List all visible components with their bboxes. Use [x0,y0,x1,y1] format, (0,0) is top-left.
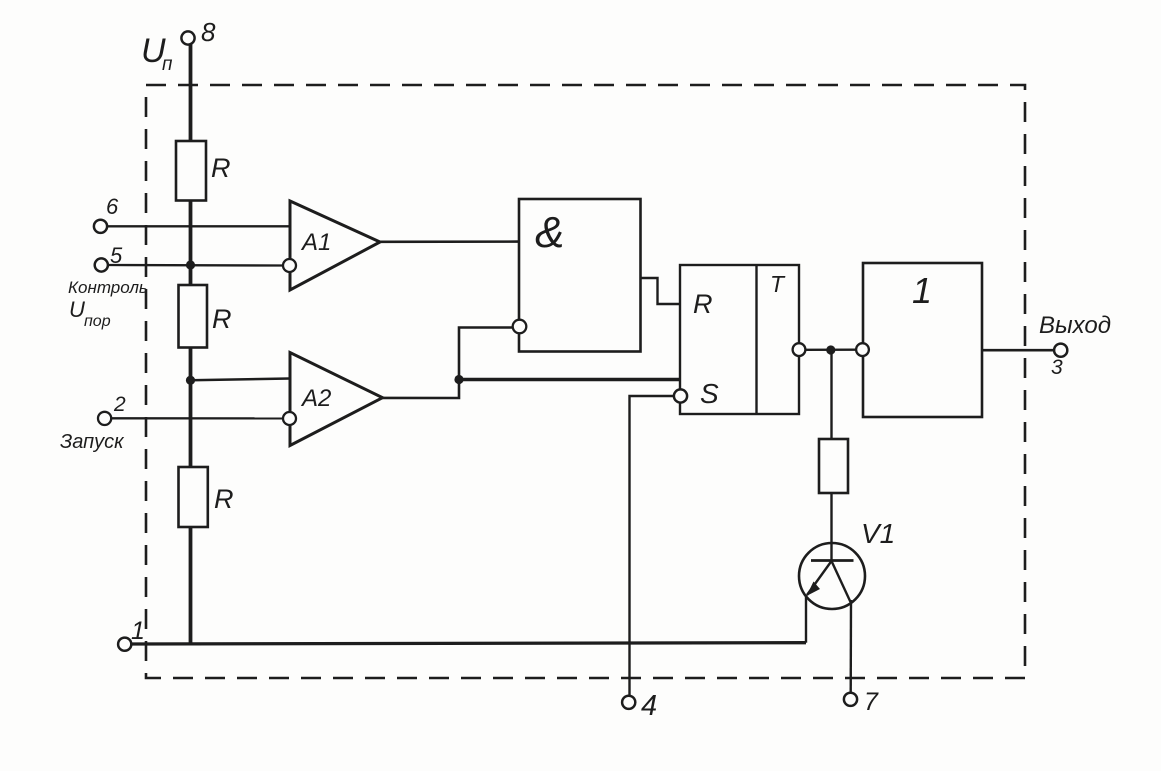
wire: A1 output to AND gate [379,240,519,243]
wire: pin 4 up to flip-flop S inverting input [630,396,675,696]
svg-text:S: S [700,378,719,409]
svg-text:&: & [535,208,564,257]
inverting bubble A1 [283,259,296,272]
svg-text:пор: пор [84,313,111,330]
svg-text:A2: A2 [300,385,331,412]
svg-text:6: 6 [106,194,119,219]
pin 2 terminal [98,412,111,425]
inverting bubble S input [674,389,687,402]
transistor V1 base bar [811,559,854,562]
wire: V1 collector down to pin 7 [850,600,853,693]
junction dot bus/A2 input [186,376,195,385]
inverting bubble A2 [283,412,296,425]
logic 1 box [863,263,982,417]
wire: V1 emitter down to ground rail [805,595,807,643]
svg-text:п: п [162,54,173,75]
transistor V1 body [799,543,865,609]
flip-flop T box [680,265,799,414]
svg-text:1: 1 [912,270,932,311]
inverting bubble logic box input [856,343,869,356]
resistor R upper divider [176,141,206,201]
resistor R lower divider [179,467,208,527]
svg-text:2: 2 [113,393,126,416]
resistor R middle divider [179,285,208,348]
wire: Vcc bus from pin 8 down to ground rail [189,44,193,644]
inverting bubble flip-flop output [793,343,806,356]
wire: divider tap to A2 noninverting input [191,379,291,381]
svg-text:V1: V1 [861,518,895,549]
svg-text:5: 5 [110,243,123,268]
pin 4 terminal [622,696,635,709]
svg-text:U: U [69,297,85,322]
wire: pin 2 to A2 inverting input [112,417,284,419]
svg-text:3: 3 [1051,356,1063,379]
inverting bubble AND input [513,320,527,334]
wire: pin 6 to A1 noninverting input [107,225,290,227]
pin 7 terminal [844,693,857,706]
pin 3 terminal [1054,344,1067,357]
svg-text:4: 4 [641,690,657,722]
comparator A1 [290,201,380,290]
dashed IC boundary [146,85,1025,678]
junction dot flip-flop output node [826,345,835,354]
wire: pin 5 to A1 inverting input [108,264,284,267]
wire: ground rail from pin 1 to V1 emitter [131,643,806,644]
pin 5 terminal [95,258,108,271]
pin 1 terminal [118,638,131,651]
transistor V1 collector leg [832,561,851,602]
AND gate box [519,199,641,352]
svg-text:R: R [214,484,234,514]
wire: flip-flop output to logic 1 box input [806,349,857,351]
svg-text:R: R [212,304,232,334]
pin 6 terminal [94,220,107,233]
svg-text:A1: A1 [300,229,331,256]
wire: AND gate output to flip-flop R input [641,278,681,304]
svg-text:1: 1 [131,617,145,645]
svg-text:Контроль: Контроль [68,278,148,297]
transistor V1 emitter leg with arrow [807,561,832,595]
junction dot A2 output node [454,375,463,384]
svg-text:R: R [211,153,231,183]
resistor discharge (above V1) [819,439,848,493]
svg-text:Выход: Выход [1039,312,1111,339]
wire: A2 output up to AND gate inverting input [382,328,514,399]
svg-text:R: R [693,289,713,319]
junction dot bus/pin5 [186,260,195,269]
svg-text:8: 8 [201,17,216,47]
wire: comparator node to flip-flop S side [459,378,680,381]
flip-flop divider [755,265,757,414]
comparator A2 [290,353,383,446]
svg-text:Запуск: Запуск [60,431,125,453]
pin 8 terminal [181,31,194,44]
svg-text:7: 7 [864,688,879,716]
svg-text:T: T [770,271,786,297]
wire: output node down to discharge resistor and V1 [830,350,832,561]
wire: logic 1 box output to pin 3 [982,349,1054,352]
